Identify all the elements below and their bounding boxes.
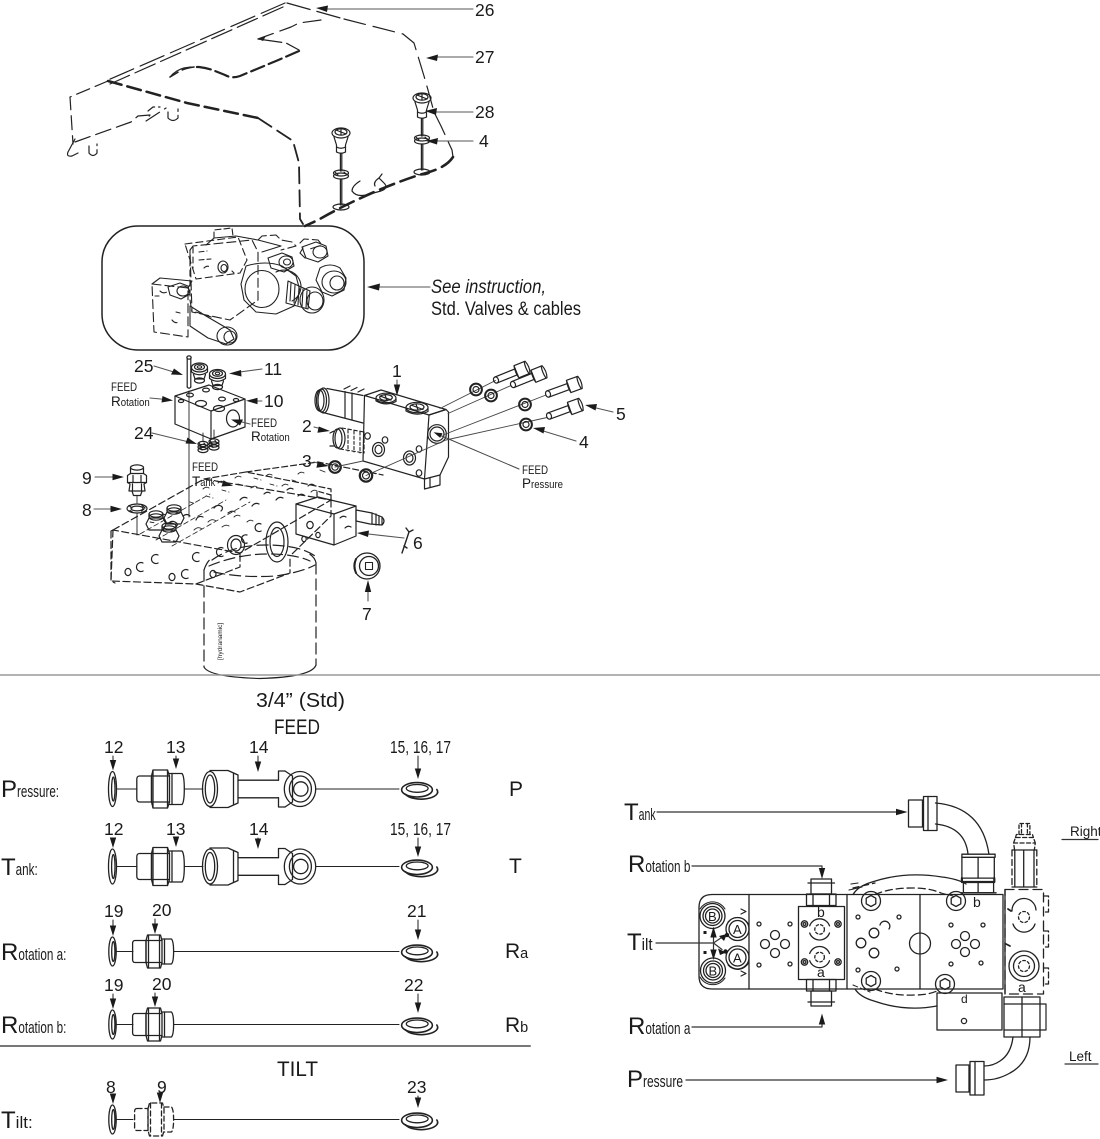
fitting 9 drop line (136, 496, 138, 503)
arrow 14T (257, 838, 259, 843)
svg-text:d: d (961, 992, 968, 1006)
svg-text:Rotation: Rotation (111, 394, 150, 409)
relief valve top dashed hex (1019, 824, 1030, 835)
svg-text:Rotation a:: Rotation a: (1, 939, 66, 966)
leader 1 (396, 380, 398, 390)
leader 11 (236, 369, 262, 373)
leader 6 (364, 534, 404, 539)
bolt 5 group (491, 361, 584, 423)
cover notch right step (258, 39, 299, 50)
block 10 side hole (227, 410, 240, 427)
cover left foot (68, 139, 79, 156)
row rotation-b (109, 1008, 438, 1041)
mark gt bottom (741, 971, 746, 976)
underline Left (1065, 1063, 1098, 1065)
cover hole (right screw) (414, 169, 430, 175)
svg-text:Tank:: Tank: (1, 854, 38, 881)
SEC_MAINBLOCK (111, 462, 383, 592)
tank fitting (909, 800, 923, 827)
circle A bottom (726, 946, 749, 969)
svg-text:FEED: FEED (192, 460, 218, 474)
fitting 11a (192, 363, 208, 372)
washer 8 (127, 504, 147, 513)
union 13 (T) (137, 854, 152, 880)
union 20 (Ra) (133, 941, 146, 963)
svg-text:10: 10 (264, 391, 284, 411)
svg-text:FEED: FEED (111, 380, 137, 394)
arrowhead 26 (316, 6, 328, 13)
hose 14 (P) (203, 772, 218, 807)
svg-text:4: 4 (479, 131, 489, 151)
svg-text:Tilt:: Tilt: (1, 1107, 33, 1134)
svg-text:3: 3 (302, 451, 312, 471)
pack upper-right solenoid (302, 242, 328, 262)
bottom hose loop (855, 989, 937, 1008)
leader rotation-a (692, 1021, 822, 1027)
svg-text:1: 1 (392, 361, 402, 381)
leader 4 (540, 430, 576, 441)
leader 7 (367, 585, 369, 601)
cover notch heavy edge (194, 51, 299, 77)
arrowhead 7 (365, 580, 371, 592)
cover inner tab (148, 107, 160, 111)
block 1 top plugs (376, 393, 396, 403)
cover top-right slope (287, 3, 344, 19)
block 1 bottom step (425, 475, 441, 489)
pack small circle detail (218, 261, 228, 273)
screw (cover left) (332, 128, 350, 210)
plate dashed details (849, 883, 862, 890)
washer 4a (470, 384, 532, 431)
front face port rings (136, 524, 261, 579)
leader 2 (314, 427, 324, 430)
svg-text:FEED: FEED (522, 463, 548, 477)
circle B top (700, 904, 725, 929)
svg-text:b: b (817, 904, 825, 920)
arrowhead tilt down (710, 950, 716, 961)
arrowhead 9 (113, 474, 125, 480)
SEC_BLOCK1 (315, 386, 449, 489)
svg-text:Left: Left (1069, 1049, 1092, 1064)
o-ring 8 (tilt) (109, 1105, 116, 1134)
svg-text:Rotation b: Rotation b (628, 851, 690, 878)
o-ring (block1 lower-left) (360, 469, 372, 481)
plug 7 (354, 553, 380, 579)
bolt 4 (545, 398, 585, 423)
svg-text:19: 19 (104, 975, 123, 995)
svg-text:15, 16, 17: 15, 16, 17 (390, 737, 451, 757)
leader feed-tank (216, 481, 227, 484)
cover front fold edge (108, 81, 258, 118)
feed pressure port (428, 425, 447, 444)
arrowhead tank (896, 809, 908, 815)
arrowhead 10 (246, 398, 258, 404)
arrowhead see-instruction (367, 284, 380, 291)
arrowhead rotation-a (819, 1014, 825, 1025)
right port bottom (1009, 951, 1039, 981)
pack left lower block (152, 284, 188, 337)
pressure union (970, 1062, 984, 1096)
tilt dot lower (718, 949, 726, 956)
arrow 13T (175, 838, 177, 841)
arrowhead 25 (171, 369, 183, 376)
leader rotation-b (692, 866, 822, 872)
svg-text:9: 9 (82, 468, 92, 488)
svg-text:Rb: Rb (505, 1014, 528, 1037)
svg-text:P: P (509, 778, 523, 801)
leader 4 (top) (434, 140, 473, 142)
block 1 top face (365, 390, 447, 415)
arrow 14P (257, 756, 259, 766)
side labels (1, 776, 529, 1134)
arrow 15P (417, 756, 419, 772)
left block marks (704, 931, 707, 954)
arrowhead 28 (425, 108, 437, 115)
right port top (1012, 899, 1036, 911)
hex plug c on block top (159, 530, 179, 542)
arrow 19a (112, 920, 114, 930)
port a (810, 946, 830, 953)
right section dashed (1005, 890, 1044, 995)
svg-text:Tank: Tank (192, 474, 216, 489)
svg-text:19: 19 (104, 901, 123, 921)
pack lower cylinder (190, 306, 234, 344)
leader feed-rotation-left (150, 398, 166, 400)
leader 26 (325, 8, 473, 10)
pin 6 (402, 528, 413, 553)
block 10 fitting seats (196, 401, 207, 407)
centerline to seal (316, 788, 399, 790)
leader tank (657, 811, 901, 813)
filter cylinder (204, 545, 316, 679)
washer 8 drop line (136, 513, 138, 535)
svg-text:FEED: FEED (251, 416, 277, 430)
leader feed-pressure (437, 434, 519, 469)
svg-text:T: T (509, 855, 522, 878)
sub-block top tabs (317, 491, 331, 501)
center fitting block (799, 907, 845, 980)
seal 21 (402, 945, 433, 959)
main block right upper edge (290, 500, 331, 556)
union 20 (Rb) (133, 1014, 146, 1036)
filter boss (266, 522, 288, 562)
cover foot u2 (168, 109, 178, 121)
svg-text:FEED: FEED (274, 715, 320, 739)
leader tilt (656, 942, 714, 944)
svg-text:14: 14 (249, 819, 269, 839)
leader 8 (94, 508, 115, 510)
cover right upper edge (344, 19, 453, 157)
pack upper-center solenoid (268, 253, 294, 272)
leader pressure (686, 1079, 941, 1081)
arrowhead 1 (394, 385, 400, 397)
pack left block solenoid (168, 283, 190, 299)
leader feed-rotation-right (238, 421, 250, 424)
tilt dot upper (719, 934, 727, 941)
svg-text:A: A (733, 922, 742, 937)
dome hose top (853, 875, 966, 895)
cover front fold lower (258, 118, 303, 224)
leader 24 (152, 433, 191, 443)
cover notch left curve (170, 67, 194, 77)
block 10 (175, 385, 245, 411)
block 10 top holes (187, 393, 194, 397)
main block top face (113, 479, 331, 553)
svg-text:B: B (708, 909, 717, 924)
block 1 right face (425, 410, 449, 480)
arrow 9t (159, 1096, 161, 1097)
arrowhead 24 (186, 438, 198, 445)
row labels and arrows (104, 737, 451, 1097)
svg-text:20: 20 (152, 974, 172, 994)
svg-text:22: 22 (404, 975, 423, 995)
pack dashed connectors (193, 247, 214, 318)
svg-text:4: 4 (579, 432, 589, 452)
arrowhead 4 (533, 427, 545, 434)
small dots on front (125, 568, 131, 575)
svg-text:Tilt: Tilt (627, 929, 653, 956)
bolt 3 (544, 376, 584, 401)
pack upper-left dashed block (185, 237, 247, 279)
bolt 2 (508, 365, 548, 391)
svg-text:21: 21 (407, 901, 426, 921)
svg-text:5: 5 (616, 404, 626, 424)
pack front cap (300, 287, 324, 313)
tank vertical adapter (962, 854, 995, 857)
svg-text:3/4” (Std): 3/4” (Std) (256, 689, 345, 712)
divider tilt (0, 1045, 530, 1047)
leader 3 (314, 462, 323, 465)
svg-text:Ra: Ra (505, 940, 529, 963)
pin 25 assembly line (188, 391, 190, 517)
svg-text:b: b (973, 894, 981, 910)
leader see-instruction (374, 286, 430, 288)
SEC_CALLOUTS_TOP (325, 9, 473, 141)
svg-text:6: 6 (413, 533, 423, 553)
pack big cylinder rings (241, 263, 300, 314)
svg-text:B: B (709, 964, 718, 979)
svg-text:25: 25 (134, 356, 153, 376)
port screws (801, 921, 807, 927)
pack right cylinder (316, 265, 346, 296)
body main outline (699, 895, 1003, 990)
hose 14 (T) (203, 849, 218, 884)
hex bolt top-left (862, 892, 881, 911)
svg-text:Std. Valves & cables: Std. Valves & cables (431, 299, 581, 320)
d block (937, 993, 1002, 1030)
cover inner lower edge (75, 108, 166, 142)
svg-text:12: 12 (104, 737, 123, 757)
cover notch arrow mark (258, 36, 266, 41)
row pressure (109, 770, 438, 808)
hex plug b on block top (164, 512, 184, 524)
washer 4c (519, 399, 531, 411)
pressure out fitting (1004, 997, 1040, 1037)
svg-text:26: 26 (475, 0, 494, 20)
grommets 24 (198, 441, 208, 446)
svg-text:Pressure: Pressure (522, 476, 563, 491)
arrowhead 11 (229, 370, 242, 377)
grommet24 stems (203, 430, 214, 441)
bolt 1 (491, 361, 531, 387)
pressure hose (984, 1037, 1030, 1080)
arrowhead pressure (937, 1077, 949, 1083)
svg-text:2: 2 (302, 416, 312, 436)
svg-text:See instruction,: See instruction, (431, 277, 546, 298)
arrow 8t (112, 1096, 114, 1098)
washer 4 (cover right screw) (415, 135, 430, 141)
rotation-a fitting (807, 980, 837, 992)
cover small tab lower (352, 174, 386, 196)
cluster C (961, 932, 970, 941)
block 1 front ports (373, 443, 385, 457)
o-ring 12 (T) (109, 849, 117, 884)
leader 27 (432, 56, 473, 58)
svg-text:Rotation: Rotation (251, 429, 290, 444)
arrow 19b (112, 994, 114, 1003)
svg-text:TILT: TILT (277, 1057, 318, 1081)
arrowhead feed-rotation-left (162, 396, 174, 403)
arrow 12P (112, 756, 114, 764)
pack main block (190, 240, 258, 320)
arrowhead 6 (357, 531, 369, 538)
arrowhead feed-tank (222, 480, 234, 486)
cover foot u1 (89, 144, 97, 156)
arrowhead 5 (585, 404, 597, 411)
cover left edge (70, 81, 108, 144)
cover top-left slope edge (108, 3, 285, 80)
pack top tabs (258, 235, 296, 250)
o-ring 3 (329, 461, 341, 473)
union 9 (tilt, dashed) (135, 1103, 174, 1136)
svg-text:A: A (733, 951, 742, 966)
arrow 13P (175, 756, 177, 763)
sub-block (valve 6) (296, 491, 384, 545)
svg-text:7: 7 (362, 604, 372, 624)
pack top plate (206, 236, 281, 252)
hex bolt bottom-right (936, 975, 955, 994)
pack ribbed collar (286, 281, 310, 309)
leader 5 (592, 407, 613, 412)
hex plug a on block top (146, 518, 166, 530)
svg-text:a: a (1018, 979, 1026, 995)
fitting 9 (127, 465, 147, 535)
arrowhead feed-rotation-right (231, 420, 243, 426)
arrowhead 8 (111, 506, 123, 512)
solenoid upper (solid) (323, 389, 363, 424)
circle A top (726, 918, 749, 941)
main block top rear dashes (204, 472, 331, 500)
cover notch upper thin (258, 20, 321, 39)
arrowhead rotation-b (819, 868, 825, 879)
svg-text:27: 27 (475, 47, 494, 67)
top face squiggles (168, 484, 314, 527)
svg-text:Rotation a: Rotation a (628, 1013, 691, 1040)
relief valve hex body (1012, 850, 1037, 887)
arrow 15T (417, 838, 419, 850)
arrowhead 4 (top) (426, 138, 438, 145)
svg-text:Pressure:: Pressure: (1, 776, 59, 803)
arrow 12T (112, 838, 114, 842)
row tank (109, 848, 438, 886)
arrow 21 (417, 920, 419, 934)
arrowhead 2 (317, 427, 330, 433)
solenoid 2 (dashed) (340, 428, 364, 453)
screw 28 (cover right) (413, 93, 431, 175)
cover small tab inner (375, 178, 380, 186)
seal 22 (402, 1018, 433, 1032)
seal 23 (402, 1113, 433, 1127)
facet line mid2 (919, 895, 921, 990)
valve pack drawing inside box (152, 228, 346, 345)
leader 28 (433, 111, 473, 113)
cluster A (771, 931, 780, 940)
facet line mid1 (846, 895, 848, 990)
svg-text:8: 8 (82, 500, 92, 520)
relief valve cone rings (1014, 835, 1036, 850)
svg-text:[hydranamic]: [hydranamic] (217, 623, 224, 660)
labels right assembly (624, 799, 1100, 1093)
arrow 22 (417, 994, 419, 1007)
svg-text:14: 14 (249, 737, 269, 757)
leader 25 (154, 366, 177, 373)
svg-text:23: 23 (407, 1077, 426, 1097)
seal 15-17 (T) (402, 860, 433, 874)
arrowhead 27 (426, 55, 438, 62)
mark gt top (741, 909, 746, 914)
arrow 23 (417, 1096, 419, 1102)
sub-block solenoid (356, 510, 382, 525)
cover bottom curve (305, 157, 453, 226)
row rotation-a (109, 935, 438, 968)
svg-text:Right: Right (1070, 824, 1100, 839)
centerline (184, 788, 203, 790)
arrow 20a (154, 919, 156, 928)
SEC_RIGHTASM (699, 797, 1049, 1096)
arrowhead 3 (316, 462, 329, 468)
block 1 front face (363, 396, 429, 480)
right section tabs (1044, 896, 1049, 984)
svg-text:13: 13 (166, 819, 185, 839)
svg-text:12: 12 (104, 819, 123, 839)
rotation-b fitting (811, 879, 832, 894)
washer 4d (520, 419, 532, 431)
cover hole (left screw) (333, 204, 349, 210)
SEC_COVER (68, 3, 454, 226)
o-ring 19 (Ra) (109, 937, 116, 966)
facet line left block (748, 895, 750, 990)
assembly lines to bolts (335, 381, 547, 476)
svg-text:Rotation b:: Rotation b: (1, 1012, 66, 1039)
main block front face (111, 530, 240, 584)
cover mid fold curve (170, 67, 191, 77)
pack lower block bottom marks (172, 312, 180, 323)
SEC_MANIFOLD (175, 356, 245, 517)
main block left face (111, 530, 115, 583)
svg-text:Pressure: Pressure (627, 1066, 683, 1093)
pin 25 (187, 358, 191, 387)
svg-text:15, 16, 17: 15, 16, 17 (390, 819, 451, 839)
arrowhead tilt up (710, 927, 716, 938)
divider feed (0, 674, 1100, 676)
centerline (117, 788, 138, 790)
svg-text:20: 20 (152, 900, 172, 920)
seal 15-17 (P) (402, 783, 433, 797)
svg-text:Tank: Tank (624, 799, 656, 826)
long centerline (174, 951, 399, 953)
center big circle (910, 933, 931, 954)
fitting 11b (210, 370, 226, 379)
